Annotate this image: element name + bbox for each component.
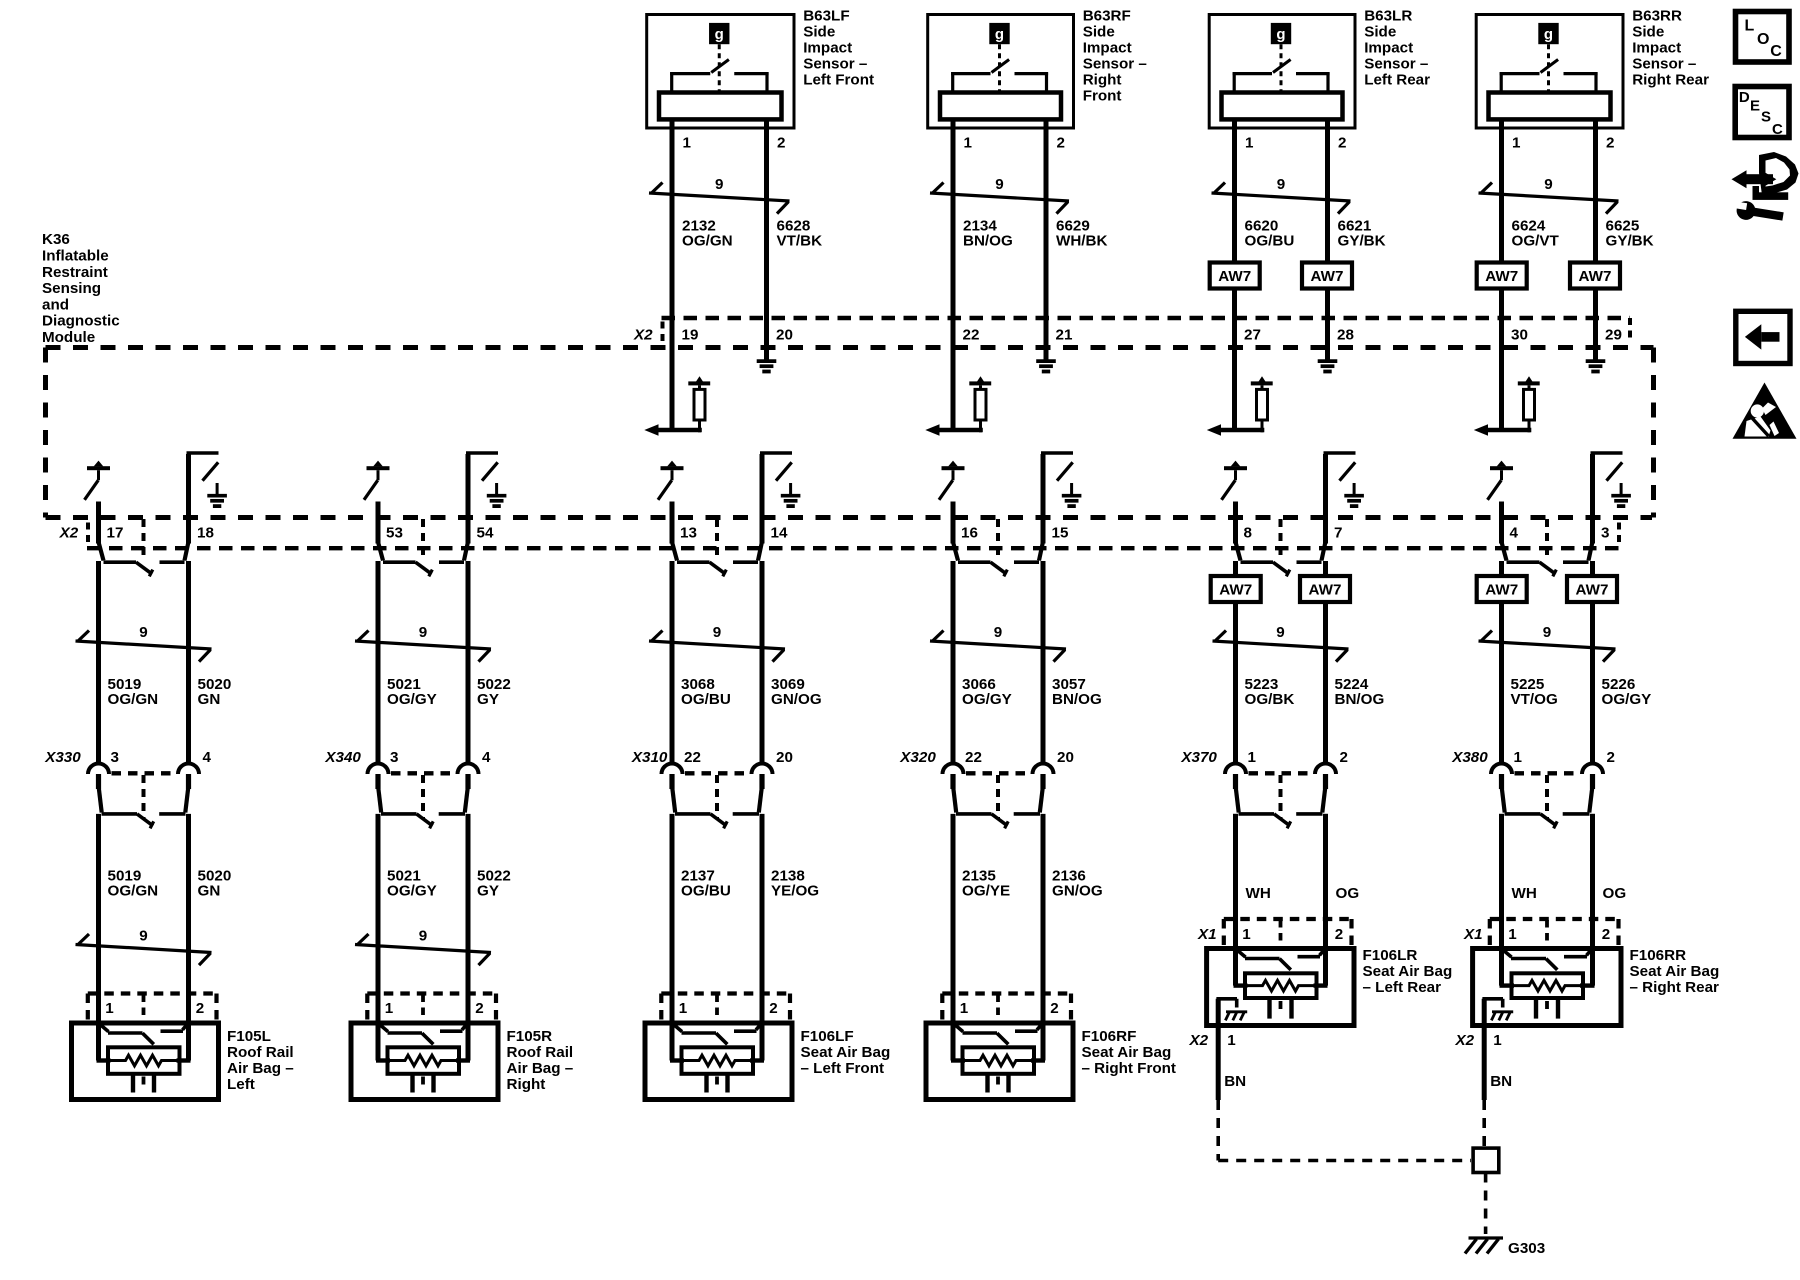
- wire 6624 (sensor B63RR pin 1): [1499, 119, 1504, 430]
- pin 2 of B63RR: [1606, 135, 1614, 152]
- wire label 5225 VT/OG: [1511, 676, 1558, 708]
- svg-text:2: 2: [1335, 926, 1343, 943]
- wire label 5022 GY: [477, 676, 511, 708]
- svg-text:AW7: AW7: [1219, 582, 1252, 599]
- svg-text:1: 1: [960, 1000, 969, 1017]
- svg-text:16: 16: [961, 525, 978, 542]
- side impact sensor B63RR: [1476, 15, 1623, 129]
- wire label 3068 OG/BU: [681, 676, 731, 708]
- svg-text:22: 22: [965, 749, 982, 766]
- label B63LF name: [803, 8, 874, 89]
- svg-text:X330: X330: [44, 749, 81, 766]
- svg-text:F105L: F105L: [227, 1028, 271, 1045]
- pin 21 (X2): [1056, 327, 1073, 344]
- wire 5022 GY: [466, 454, 471, 765]
- svg-text:2: 2: [196, 1000, 204, 1017]
- ground: [207, 496, 227, 506]
- svg-text:18: 18: [197, 525, 214, 542]
- twisted pair symbol 9 (sensor B63LF): [649, 176, 790, 214]
- svg-text:OG/GY: OG/GY: [1602, 691, 1652, 708]
- pin 2 of X380: [1607, 749, 1615, 766]
- svg-text:Sensor –: Sensor –: [1364, 56, 1428, 73]
- connector X2 bottom row (dotted): [87, 523, 1620, 549]
- svg-text:OG/YE: OG/YE: [962, 883, 1010, 900]
- svg-text:F106RF: F106RF: [1082, 1028, 1137, 1045]
- wire 6629 (sensor B63RF pin 2): [1044, 119, 1049, 361]
- svg-text:GN/OG: GN/OG: [771, 691, 822, 708]
- pin 22 of X320: [965, 749, 982, 766]
- svg-text:Impact: Impact: [1364, 40, 1413, 57]
- pin 2: [1050, 1000, 1058, 1017]
- pin 1 of B63LR: [1245, 135, 1254, 152]
- svg-text:Air Bag –: Air Bag –: [507, 1060, 574, 1077]
- svg-text:C: C: [1772, 121, 1783, 138]
- twisted pair symbol 9 (sensor B63RR): [1479, 176, 1619, 214]
- wire to other circuit (left arrow): [925, 424, 983, 436]
- wire label WH: [1246, 885, 1271, 902]
- wire BN dashed to splice (from F106LR): [1218, 1100, 1471, 1161]
- pin 1 of X370: [1248, 749, 1257, 766]
- svg-text:– Right Front: – Right Front: [1082, 1060, 1176, 1077]
- pin 18 (X2): [197, 525, 214, 542]
- svg-text:F106LF: F106LF: [801, 1028, 854, 1045]
- svg-text:B63RF: B63RF: [1083, 8, 1131, 25]
- connector X1 label: [1197, 926, 1217, 943]
- svg-text:GY: GY: [477, 883, 499, 900]
- wire 2132 (sensor B63LF pin 1): [670, 119, 675, 430]
- wire into F106LR (left): [1233, 814, 1238, 986]
- option splice pack AW7: [1477, 576, 1527, 602]
- housing chassis ground inside F106RR: [1482, 999, 1513, 1021]
- svg-text:g: g: [1544, 26, 1553, 43]
- pin 20 of X320: [1057, 749, 1074, 766]
- wire segment below X340 (right): [466, 814, 471, 1061]
- svg-text:B63LF: B63LF: [803, 8, 849, 25]
- wire segment below X370 (right): [1323, 814, 1328, 986]
- twisted pair symbol 9 (circuit 5021): [355, 624, 491, 662]
- wire label 6628 VT/BK: [777, 217, 823, 249]
- svg-text:OG: OG: [1603, 885, 1627, 902]
- svg-text:1: 1: [1512, 135, 1521, 152]
- airbag module F106RF: [926, 994, 1073, 1100]
- svg-text:– Left Front: – Left Front: [801, 1060, 885, 1077]
- wire label OG: [1603, 885, 1627, 902]
- svg-text:OG/GN: OG/GN: [108, 883, 159, 900]
- supply arrow and pull-up resistor R1: [688, 376, 710, 432]
- svg-text:14: 14: [771, 525, 788, 542]
- svg-text:BN/OG: BN/OG: [963, 232, 1013, 249]
- svg-text:9: 9: [1276, 624, 1284, 641]
- pin 22 of X310: [684, 749, 701, 766]
- svg-text:2: 2: [1050, 1000, 1058, 1017]
- pin 2 of X370: [1340, 749, 1348, 766]
- label F106RR: [1630, 947, 1720, 996]
- pin 2 of B63LF: [777, 135, 785, 152]
- K36 module boundary (dashed box): [46, 348, 1654, 518]
- svg-text:GY/BK: GY/BK: [1338, 232, 1386, 249]
- svg-text:1: 1: [1227, 1032, 1236, 1049]
- svg-text:Right: Right: [507, 1076, 546, 1093]
- svg-text:g: g: [1276, 26, 1285, 43]
- svg-text:Sensor –: Sensor –: [1083, 56, 1147, 73]
- twisted pair symbol 9 (sensor B63RF): [930, 176, 1069, 214]
- side impact sensor B63RF: [928, 15, 1074, 129]
- airbag module F105R: [351, 994, 498, 1100]
- svg-text:L: L: [1745, 18, 1755, 35]
- wire label 5224 BN/OG: [1335, 676, 1385, 708]
- pin 27 (X2): [1244, 327, 1261, 344]
- svg-text:BN/OG: BN/OG: [1052, 691, 1102, 708]
- wire label 5022 GY: [477, 868, 511, 900]
- svg-text:1: 1: [1508, 926, 1517, 943]
- pin 1: [1508, 926, 1517, 943]
- svg-text:VT/BK: VT/BK: [777, 232, 823, 249]
- svg-text:Sensor –: Sensor –: [1632, 56, 1696, 73]
- svg-text:2: 2: [1602, 926, 1610, 943]
- svg-text:Front: Front: [1083, 88, 1122, 105]
- svg-text:X320: X320: [899, 749, 936, 766]
- svg-text:GN: GN: [198, 691, 221, 708]
- svg-text:3: 3: [1601, 525, 1609, 542]
- wire segment below X370 (left): [1233, 814, 1238, 986]
- pin 2: [769, 1000, 777, 1017]
- svg-text:WH/BK: WH/BK: [1056, 232, 1107, 249]
- svg-text:OG/BU: OG/BU: [681, 691, 731, 708]
- wire label 5019 OG/GN: [108, 868, 159, 900]
- svg-text:53: 53: [386, 525, 403, 542]
- twisted pair symbol 9 (sensor B63LR): [1212, 176, 1351, 214]
- svg-text:13: 13: [680, 525, 697, 542]
- svg-text:OG/GY: OG/GY: [387, 691, 437, 708]
- wire segment below X340 (left): [376, 814, 381, 1061]
- svg-text:1: 1: [679, 1000, 688, 1017]
- svg-text:Diagnostic: Diagnostic: [42, 313, 120, 330]
- ground: [1318, 361, 1338, 371]
- twisted pair symbol 9 (circuit 5021 lower): [355, 928, 491, 966]
- wire label OG: [1336, 885, 1360, 902]
- wire label 6620 OG/BU: [1245, 217, 1295, 249]
- svg-text:9: 9: [713, 624, 721, 641]
- svg-text:X2: X2: [59, 525, 79, 542]
- option splice pack AW7: [1477, 263, 1527, 289]
- svg-text:Left Rear: Left Rear: [1364, 72, 1430, 89]
- svg-text:1: 1: [1242, 926, 1251, 943]
- svg-text:OG/BK: OG/BK: [1245, 691, 1295, 708]
- wire 3069 GN/OG: [760, 454, 765, 765]
- option splice pack AW7: [1567, 576, 1617, 602]
- wire 2134 (sensor B63RF pin 1): [951, 119, 956, 430]
- connector X370 label: [1180, 749, 1217, 766]
- wire into F106RR (left): [1499, 814, 1504, 986]
- svg-text:1: 1: [1493, 1032, 1502, 1049]
- wire into F106LF (right): [760, 994, 765, 1061]
- svg-text:22: 22: [684, 749, 701, 766]
- option splice pack AW7: [1210, 263, 1260, 289]
- svg-text:X370: X370: [1180, 749, 1217, 766]
- svg-text:G303: G303: [1508, 1240, 1545, 1257]
- airbag module F106LR: [1207, 919, 1354, 1026]
- wire to other circuit (left arrow): [644, 424, 702, 436]
- squib driver switch (ground side) for F106LR: [1324, 453, 1356, 496]
- wire segment below X380 (right): [1590, 814, 1595, 986]
- svg-text:AW7: AW7: [1485, 582, 1518, 599]
- svg-text:AW7: AW7: [1311, 268, 1344, 285]
- pin 53 (X2): [386, 525, 403, 542]
- ground: [1344, 496, 1364, 506]
- pin 1: [960, 1000, 969, 1017]
- wire to ground G303 (dashed): [1484, 1173, 1488, 1235]
- option splice pack AW7: [1302, 263, 1352, 289]
- housing chassis ground inside F106LR: [1216, 999, 1247, 1021]
- svg-text:29: 29: [1605, 327, 1622, 344]
- shorting clip inside F106LR: [1237, 950, 1325, 970]
- label F105R: [507, 1028, 574, 1093]
- pin 1: [1242, 926, 1251, 943]
- wire label 5020 GN: [198, 868, 232, 900]
- squib driver switch (ground side) for F106RR: [1591, 453, 1623, 496]
- connector X310 label: [631, 749, 668, 766]
- svg-text:Air Bag –: Air Bag –: [227, 1060, 294, 1077]
- svg-text:Module: Module: [42, 329, 95, 346]
- connector shorting bar below X2 pins 4/3: [1502, 519, 1592, 576]
- wire into F106RR (right): [1590, 814, 1595, 986]
- wire label 5021 OG/GY: [387, 868, 437, 900]
- label B63RF name: [1083, 8, 1147, 105]
- ground: [1062, 496, 1082, 506]
- wire segment below X320 (left): [951, 814, 956, 1061]
- ground: [1586, 361, 1606, 371]
- svg-text:OG/BU: OG/BU: [1245, 232, 1295, 249]
- svg-text:9: 9: [419, 928, 427, 945]
- svg-text:Left: Left: [227, 1076, 255, 1093]
- svg-text:19: 19: [682, 327, 699, 344]
- supply arrow and pull-up resistor R4: [1518, 376, 1540, 432]
- svg-text:BN: BN: [1490, 1073, 1512, 1090]
- twisted pair symbol 9 (circuit 5019): [76, 624, 212, 662]
- pin 1 of B63LF: [683, 135, 692, 152]
- squib driver switch (supply side) for F105L: [85, 461, 111, 500]
- svg-text:Sensing: Sensing: [42, 280, 101, 297]
- svg-text:1: 1: [683, 135, 692, 152]
- svg-text:OG/BU: OG/BU: [681, 883, 731, 900]
- wire into F105R (left): [376, 994, 381, 1061]
- svg-text:Side: Side: [1364, 24, 1396, 41]
- svg-text:Seat Air Bag: Seat Air Bag: [1630, 963, 1720, 980]
- connector X2 of F106LR: [1189, 1032, 1209, 1049]
- label B63RR name: [1632, 8, 1709, 89]
- pin 28 (X2): [1337, 327, 1354, 344]
- svg-text:1: 1: [385, 1000, 394, 1017]
- svg-text:Left Front: Left Front: [803, 72, 874, 89]
- svg-text:GN: GN: [198, 883, 221, 900]
- pin 2 of B63LR: [1338, 135, 1346, 152]
- svg-text:2: 2: [777, 135, 785, 152]
- svg-text:Impact: Impact: [803, 40, 852, 57]
- pin 17 (X2): [107, 525, 124, 542]
- svg-text:7: 7: [1334, 525, 1342, 542]
- svg-text:F105R: F105R: [507, 1028, 553, 1045]
- svg-text:X2: X2: [1455, 1032, 1475, 1049]
- svg-text:WH: WH: [1512, 885, 1537, 902]
- squib driver switch (ground side) for F105R: [466, 453, 498, 496]
- wire segment below X330 (right): [186, 814, 191, 1061]
- svg-text:GN/OG: GN/OG: [1052, 883, 1103, 900]
- squib driver switch (ground side) for F106LF: [760, 453, 792, 496]
- pin 8 (X2): [1244, 525, 1252, 542]
- svg-text:Impact: Impact: [1632, 40, 1681, 57]
- label F106RF: [1082, 1028, 1176, 1077]
- squib (ignitor) of F105L: [97, 1047, 191, 1092]
- svg-text:20: 20: [1057, 749, 1074, 766]
- wire label 5021 OG/GY: [387, 676, 437, 708]
- svg-text:2: 2: [1607, 749, 1615, 766]
- option splice pack AW7: [1300, 576, 1350, 602]
- splice junction: [1473, 1148, 1499, 1172]
- airbag module F105L: [72, 994, 219, 1100]
- svg-text:4: 4: [203, 749, 212, 766]
- wire label 3069 GN/OG: [771, 676, 822, 708]
- svg-text:O: O: [1757, 31, 1769, 48]
- svg-text:Seat Air Bag: Seat Air Bag: [1082, 1044, 1172, 1061]
- connector shorting bar below X2 pins 8/7: [1236, 519, 1325, 576]
- module K36 label: [42, 231, 120, 346]
- inline connector X380: [1491, 764, 1603, 829]
- wire 6620 (sensor B63LR pin 1): [1232, 119, 1237, 430]
- svg-text:9: 9: [1544, 176, 1552, 193]
- wire 3057 BN/OG: [1041, 454, 1046, 765]
- pin 19 (X2): [682, 327, 699, 344]
- svg-text:K36: K36: [42, 231, 70, 248]
- wire to other circuit (left arrow): [1207, 424, 1265, 436]
- wire label 2136 GN/OG: [1052, 868, 1103, 900]
- svg-text:F106RR: F106RR: [1630, 947, 1687, 964]
- pin 7 (X2): [1334, 525, 1342, 542]
- svg-text:Restraint: Restraint: [42, 264, 108, 281]
- wire 5225 VT/OG: [1499, 502, 1504, 766]
- connector X320 label: [899, 749, 936, 766]
- wire label 5019 OG/GN: [108, 676, 159, 708]
- svg-text:Right Rear: Right Rear: [1632, 72, 1709, 89]
- svg-text:3: 3: [390, 749, 398, 766]
- airbag module F106RR: [1473, 919, 1621, 1026]
- ground: [1036, 361, 1056, 371]
- svg-text:AW7: AW7: [1309, 582, 1342, 599]
- airbag module F106LF: [645, 994, 792, 1100]
- svg-text:Seat Air Bag: Seat Air Bag: [1363, 963, 1453, 980]
- connector shorting bar below X2 pins 53/54: [378, 519, 467, 576]
- wire label 6625 GY/BK: [1606, 217, 1654, 249]
- svg-text:20: 20: [776, 749, 793, 766]
- svg-text:4: 4: [482, 749, 491, 766]
- wire label 5226 OG/GY: [1602, 676, 1652, 708]
- svg-text:9: 9: [1277, 176, 1285, 193]
- side impact sensor B63LR: [1209, 15, 1355, 129]
- pin 1: [105, 1000, 114, 1017]
- svg-text:BN/OG: BN/OG: [1335, 691, 1385, 708]
- svg-text:D: D: [1739, 89, 1750, 106]
- pin 1 of B63RR: [1512, 135, 1521, 152]
- svg-text:17: 17: [107, 525, 124, 542]
- label B63LR name: [1364, 8, 1430, 89]
- pin 2: [1602, 926, 1610, 943]
- squib driver switch (supply side) for F106RR: [1488, 461, 1514, 500]
- wire label WH: [1512, 885, 1537, 902]
- svg-text:2: 2: [1338, 135, 1346, 152]
- shorting clip inside F106LF: [673, 1024, 761, 1044]
- pin 2: [475, 1000, 483, 1017]
- pin 1: [385, 1000, 394, 1017]
- pin 54 (X2): [477, 525, 494, 542]
- wire 6628 (sensor B63LF pin 2): [764, 119, 769, 361]
- svg-text:2: 2: [1057, 135, 1065, 152]
- pin 13 (X2): [680, 525, 697, 542]
- wire into F105R (right): [466, 994, 471, 1061]
- option splice pack AW7: [1570, 263, 1620, 289]
- svg-text:Inflatable: Inflatable: [42, 248, 109, 265]
- pin 2 of B63RF: [1057, 135, 1065, 152]
- svg-text:Side: Side: [803, 24, 835, 41]
- svg-text:Roof Rail: Roof Rail: [227, 1044, 294, 1061]
- connector shorting bar below X2 pins 16/15: [953, 519, 1042, 576]
- svg-text:2: 2: [1340, 749, 1348, 766]
- pin 1 of X380: [1514, 749, 1523, 766]
- svg-text:1: 1: [1514, 749, 1523, 766]
- pin 15 (X2): [1052, 525, 1069, 542]
- svg-text:9: 9: [139, 624, 147, 641]
- wire BN (ground strap of F106LR): [1218, 999, 1246, 1100]
- wire label 5223 OG/BK: [1245, 676, 1295, 708]
- squib (ignitor) of F105R: [376, 1047, 470, 1092]
- squib driver switch (ground side) for F105L: [187, 453, 219, 496]
- wire BN (ground strap of F106RR): [1484, 999, 1512, 1100]
- svg-text:WH: WH: [1246, 885, 1271, 902]
- wire BN dashed to splice (from F106RR): [1482, 1100, 1486, 1146]
- svg-text:1: 1: [964, 135, 973, 152]
- svg-text:4: 4: [1510, 525, 1519, 542]
- shorting clip inside F105R: [379, 1024, 467, 1044]
- pin 3 of X340: [390, 749, 398, 766]
- inline connector X370: [1225, 764, 1336, 829]
- pin 1 of B63RF: [964, 135, 973, 152]
- svg-text:30: 30: [1511, 327, 1528, 344]
- svg-text:E: E: [1750, 98, 1760, 115]
- icon LOC box: [1736, 12, 1790, 63]
- inline connector X310: [662, 764, 773, 829]
- svg-text:VT/OG: VT/OG: [1511, 691, 1558, 708]
- wire into F106LR (right): [1323, 814, 1328, 986]
- svg-text:9: 9: [995, 176, 1003, 193]
- svg-text:1: 1: [105, 1000, 114, 1017]
- svg-text:9: 9: [139, 928, 147, 945]
- svg-text:15: 15: [1052, 525, 1069, 542]
- svg-text:X1: X1: [1463, 926, 1483, 943]
- wire label 3066 OG/GY: [962, 676, 1012, 708]
- svg-text:2: 2: [475, 1000, 483, 1017]
- wire into F106LF (left): [670, 994, 675, 1061]
- wire 5020 GN: [186, 454, 191, 765]
- connector X2 label (bottom): [59, 525, 79, 542]
- wire 3068 OG/BU: [670, 502, 675, 766]
- squib (ignitor) of F106RF: [951, 1047, 1045, 1092]
- pin 1 (X2 of F106LR): [1227, 1032, 1236, 1049]
- wire label 2137 OG/BU: [681, 868, 731, 900]
- twisted pair symbol 9 (circuit 5223): [1213, 624, 1349, 662]
- squib driver switch (supply side) for F106LF: [658, 461, 684, 500]
- svg-text:1: 1: [1248, 749, 1257, 766]
- shorting clip inside F106RF: [954, 1024, 1042, 1044]
- wire segment below X310 (left): [670, 814, 675, 1061]
- svg-text:OG/GY: OG/GY: [962, 691, 1012, 708]
